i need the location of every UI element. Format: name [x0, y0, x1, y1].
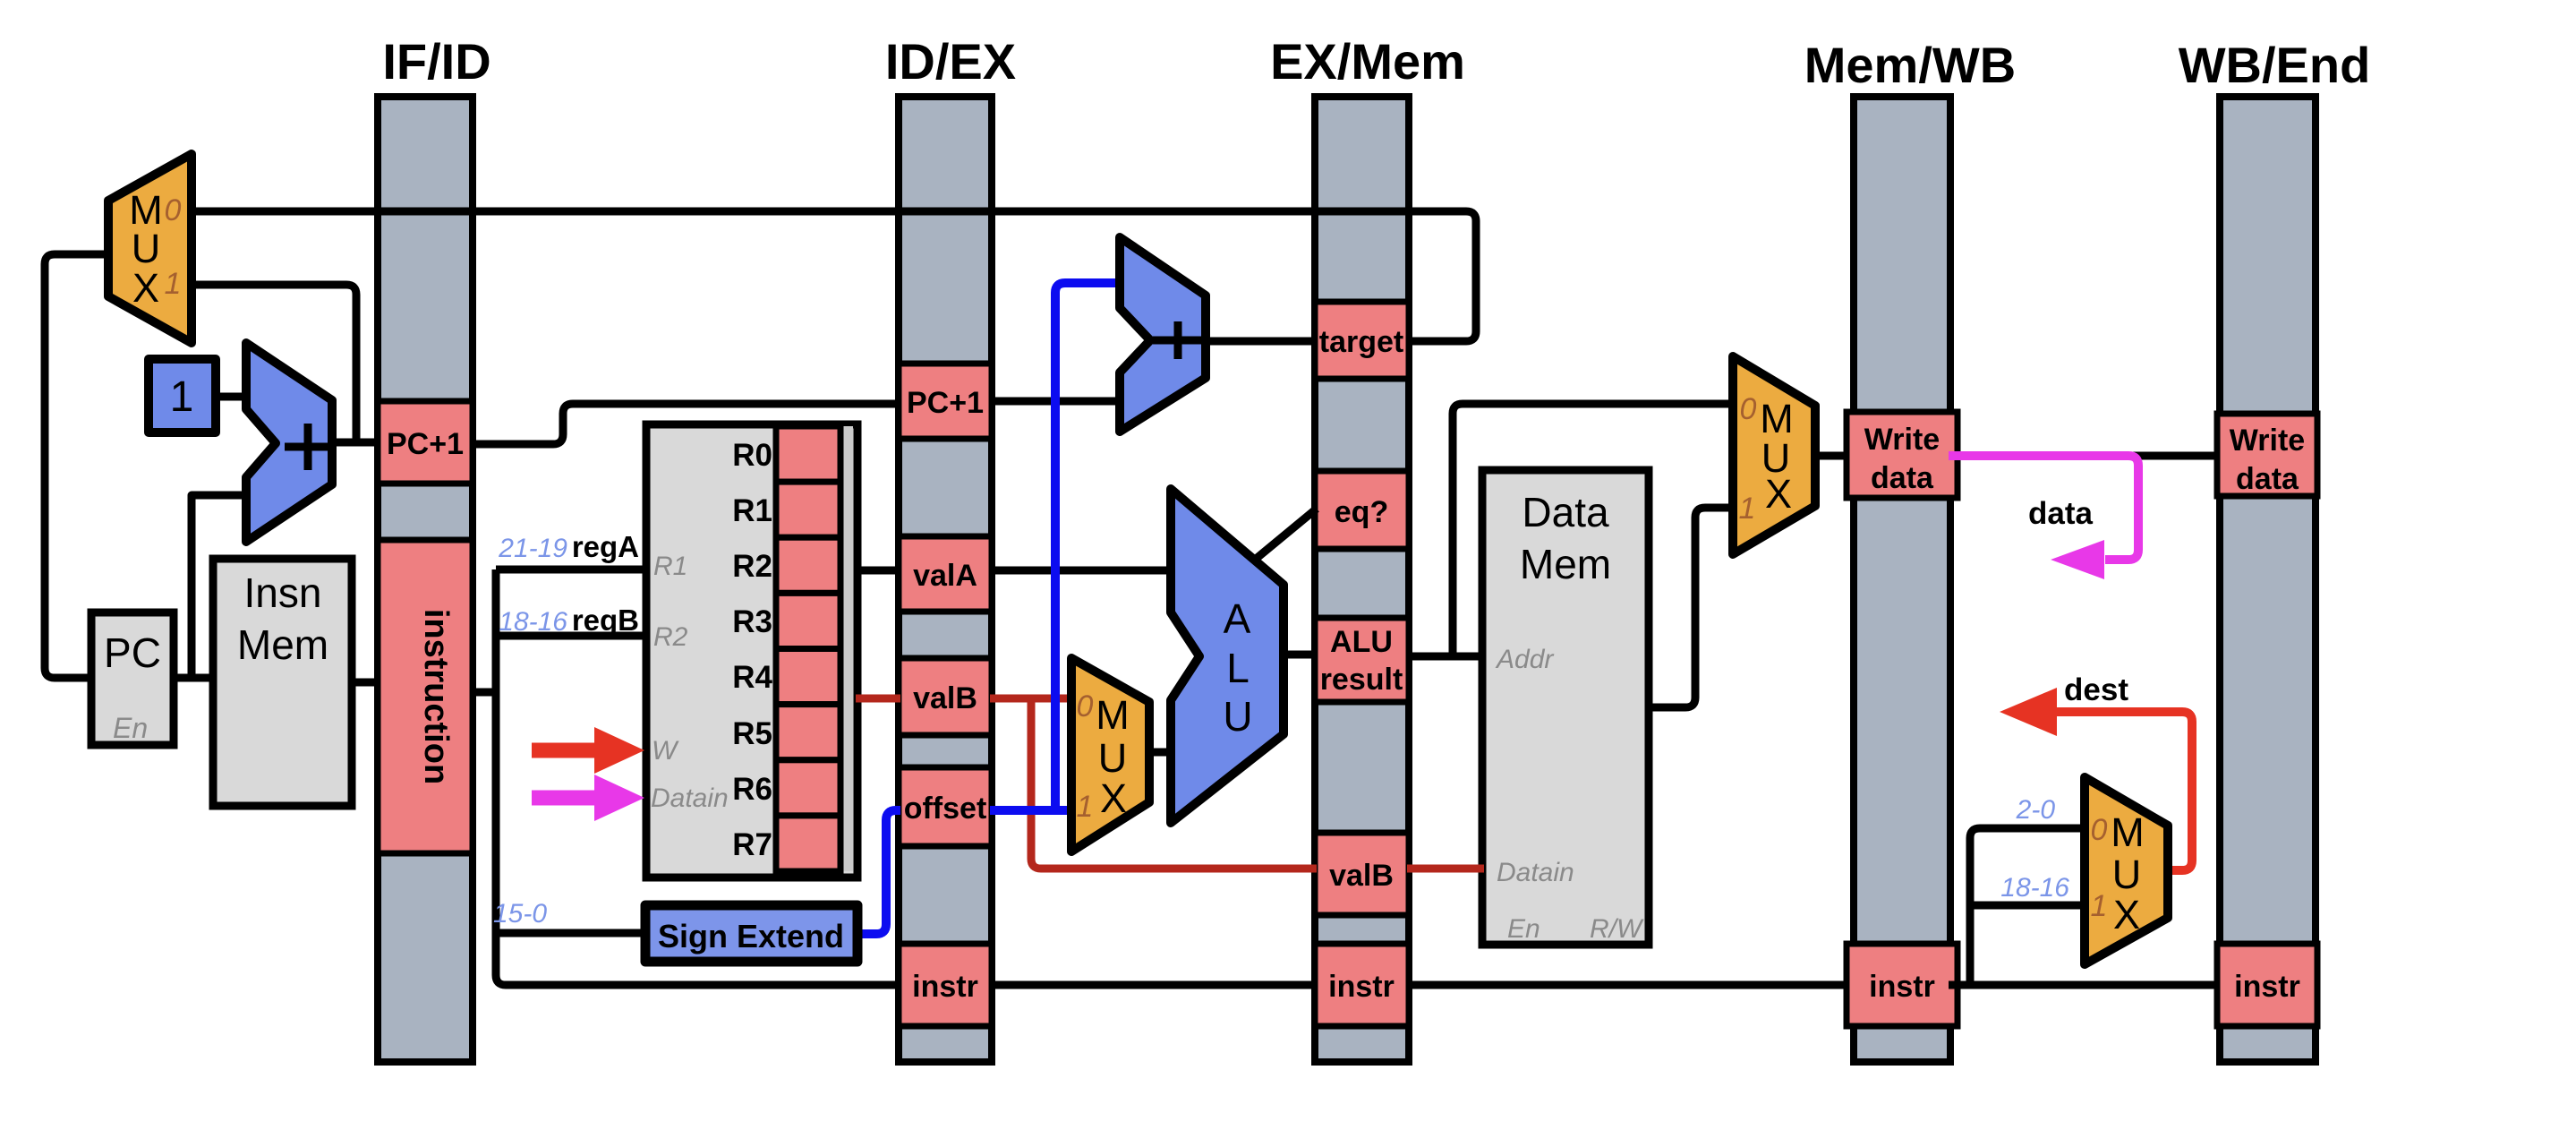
- svg-text:Mem/WB: Mem/WB: [1804, 37, 2016, 93]
- svg-text:X: X: [132, 265, 159, 311]
- svg-text:instruction: instruction: [417, 609, 455, 784]
- svg-text:target: target: [1319, 325, 1403, 359]
- svg-text:instr: instr: [912, 970, 978, 1004]
- svg-text:offset: offset: [904, 792, 987, 826]
- svg-text:18-16: 18-16: [2000, 873, 2069, 903]
- svg-text:R6: R6: [732, 772, 772, 807]
- svg-text:Addr: Addr: [1495, 645, 1554, 674]
- svg-text:instr: instr: [2234, 970, 2300, 1004]
- svg-text:1: 1: [165, 267, 182, 301]
- svg-text:L: L: [1226, 645, 1250, 691]
- svg-text:R2: R2: [732, 549, 772, 584]
- svg-text:R/W: R/W: [1590, 914, 1644, 944]
- svg-text:0: 0: [1077, 689, 1094, 723]
- svg-text:Insn: Insn: [244, 569, 322, 616]
- svg-text:data: data: [2028, 496, 2094, 531]
- svg-text:15-0: 15-0: [493, 899, 547, 929]
- svg-text:result: result: [1320, 663, 1403, 697]
- svg-text:instr: instr: [1328, 970, 1395, 1004]
- svg-text:Mem: Mem: [1520, 541, 1611, 587]
- svg-text:dest: dest: [2064, 672, 2128, 707]
- svg-text:18-16: 18-16: [499, 607, 567, 637]
- svg-text:M: M: [1096, 692, 1130, 738]
- svg-text:regB: regB: [572, 604, 639, 637]
- svg-text:R5: R5: [732, 716, 772, 751]
- svg-text:Write: Write: [1864, 423, 1940, 457]
- svg-text:2-0: 2-0: [2016, 795, 2056, 825]
- svg-text:0: 0: [165, 193, 182, 227]
- svg-text:1: 1: [1077, 790, 1094, 824]
- svg-text:PC+1: PC+1: [387, 427, 464, 461]
- svg-text:regA: regA: [572, 530, 639, 563]
- svg-text:Write: Write: [2230, 424, 2305, 458]
- svg-text:data: data: [1871, 461, 1934, 495]
- svg-text:EX/Mem: EX/Mem: [1270, 33, 1465, 90]
- svg-text:U: U: [2112, 852, 2142, 897]
- svg-text:R7: R7: [732, 827, 772, 862]
- svg-text:R1: R1: [653, 552, 687, 581]
- svg-text:Mem: Mem: [237, 621, 328, 668]
- svg-text:data: data: [2236, 462, 2299, 496]
- svg-text:PC: PC: [104, 629, 161, 676]
- svg-text:0: 0: [1740, 392, 1757, 426]
- svg-text:ALU: ALU: [1330, 625, 1393, 659]
- svg-text:valB: valB: [1329, 859, 1394, 893]
- svg-text:0: 0: [2091, 813, 2108, 847]
- svg-text:valA: valA: [913, 559, 977, 593]
- svg-text:A: A: [1224, 595, 1251, 642]
- svg-text:W: W: [652, 736, 679, 766]
- svg-text:M: M: [2111, 809, 2145, 855]
- svg-text:X: X: [2113, 892, 2140, 937]
- svg-text:R2: R2: [653, 622, 688, 652]
- svg-text:1: 1: [170, 373, 194, 421]
- svg-text:1: 1: [1739, 492, 1756, 526]
- svg-text:21-19: 21-19: [498, 534, 567, 563]
- svg-text:Sign Extend: Sign Extend: [658, 918, 844, 955]
- svg-text:PC+1: PC+1: [907, 386, 984, 420]
- svg-text:valB: valB: [913, 681, 977, 715]
- svg-text:IF/ID: IF/ID: [382, 33, 490, 90]
- svg-text:R3: R3: [732, 604, 772, 639]
- svg-text:eq?: eq?: [1335, 495, 1388, 529]
- svg-text:En: En: [113, 712, 148, 744]
- svg-text:Datain: Datain: [651, 783, 729, 813]
- svg-text:U: U: [1098, 735, 1128, 781]
- svg-text:Datain: Datain: [1497, 858, 1574, 887]
- svg-text:WB/End: WB/End: [2179, 37, 2371, 93]
- svg-text:Data: Data: [1522, 489, 1609, 535]
- svg-text:1: 1: [2091, 889, 2108, 923]
- svg-text:R1: R1: [732, 493, 772, 528]
- svg-text:ID/EX: ID/EX: [885, 33, 1016, 90]
- svg-text:X: X: [1100, 775, 1127, 821]
- svg-text:instr: instr: [1869, 970, 1935, 1004]
- svg-text:En: En: [1507, 914, 1540, 944]
- svg-text:X: X: [1765, 471, 1792, 517]
- svg-text:R0: R0: [732, 438, 772, 473]
- svg-text:U: U: [1223, 693, 1252, 740]
- svg-text:R4: R4: [732, 660, 772, 695]
